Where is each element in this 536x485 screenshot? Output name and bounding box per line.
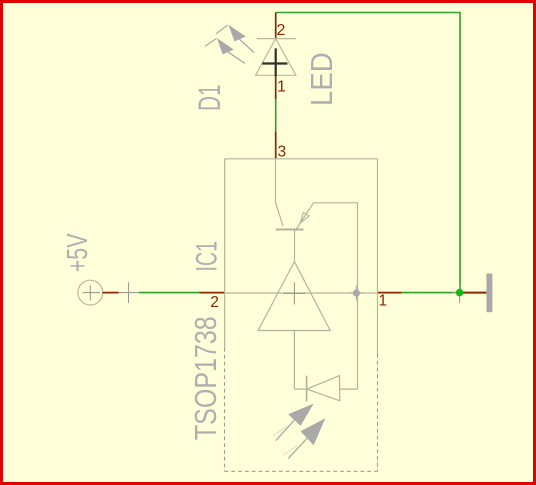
svg-text:+5V: +5V [62,233,94,272]
LED D1 pin 2 stub [275,13,277,39]
IC1 pin 2 stub [200,292,225,294]
svg-text:LED: LED [305,52,339,106]
gray junction dot (internal node) [349,286,364,301]
svg-text:1: 1 [379,293,388,310]
wire IC pin 1 to ground node [402,292,460,294]
transistor (internal) [276,159,358,389]
svg-text:1: 1 [277,79,286,96]
IC1 internal rails [225,159,378,354]
photodiode light arrows [273,404,326,459]
svg-text:D1: D1 [191,85,227,112]
svg-text:IC1: IC1 [190,241,223,272]
wire LED anode to IC pin 3 [275,99,277,131]
IC1 dashed case [225,348,378,471]
IC1 pin 1 stub [378,292,402,294]
wire net N$1 top horizontal [276,13,460,293]
svg-text:3: 3 [278,144,287,161]
photodiode (internal) [294,376,357,402]
svg-text:2: 2 [210,294,219,311]
IC1 pin 3 stub [275,131,277,159]
op-amp triangle (internal) [258,262,330,390]
wire +5V to IC pin 2 [139,292,200,294]
LED D1 symbol [205,25,296,76]
supply +5V symbol [78,280,139,305]
svg-text:2: 2 [277,22,286,39]
LED D1 pin 1 stub [275,76,277,99]
junction dot (net) [456,289,464,297]
svg-text:TSOP1738: TSOP1738 [190,316,223,440]
ground symbol [452,274,492,313]
